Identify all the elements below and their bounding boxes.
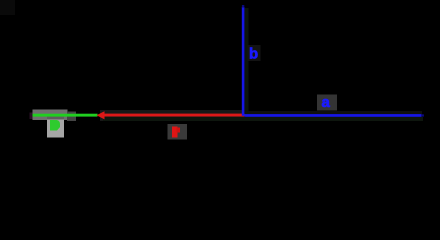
wire: blue vertical vector b [242,7,245,116]
selection highlight band along green vector [33,110,77,122]
green vector left tip (dark) [30,113,33,120]
faint corner square [0,0,15,15]
halo band along horizontal lines [100,8,423,121]
wire: blue horizontal vector a [244,114,421,117]
svg-text:a: a [322,94,331,111]
label b (green glyph) [50,120,60,131]
label b (blue) [248,45,261,63]
label box a (blue) [317,95,337,111]
wire: red vector segment c [103,114,245,117]
label box c (red) [168,124,188,140]
red vector arrowhead [97,111,105,119]
label c (red glyph) [172,127,180,138]
wire: green vector segment [32,114,98,117]
label box b (green) [47,117,64,138]
svg-text:b: b [249,46,258,63]
